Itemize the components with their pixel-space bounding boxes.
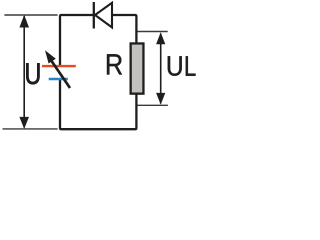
voltage arrow UL (shaft) xyxy=(160,34,162,104)
diode triangle xyxy=(95,3,112,28)
voltage arrow U (shaft) xyxy=(23,16,25,128)
wire: diode to top-right corner, down to resistor top xyxy=(112,15,136,44)
wire: below capacitor, bottom wire, up to resistor bottom xyxy=(60,79,136,129)
label R xyxy=(107,54,122,74)
top reference line for U xyxy=(4,14,57,16)
wire: top-left corner and left wire down to capacitor top plate xyxy=(60,15,95,66)
label UL letter L xyxy=(186,56,196,76)
variable capacitor wiper arrow (shaft) xyxy=(51,60,71,89)
top reference line for UL xyxy=(138,31,168,33)
label U xyxy=(26,63,39,84)
bottom reference line for U xyxy=(3,128,58,130)
diode cathode bar xyxy=(93,2,95,29)
voltage arrow UL (upper head) xyxy=(156,32,165,44)
variable capacitor plate (blue) xyxy=(49,78,68,80)
resistor R (body) xyxy=(131,43,144,93)
voltage arrow UL (lower head) xyxy=(156,93,165,105)
bottom reference line for UL xyxy=(138,104,168,106)
variable capacitor plate (red) xyxy=(42,65,76,67)
label UL letter U xyxy=(168,56,182,76)
voltage arrow U (lower head) xyxy=(19,117,29,129)
variable capacitor wiper arrow (head) xyxy=(45,50,56,63)
voltage arrow U (upper head) xyxy=(19,15,29,28)
